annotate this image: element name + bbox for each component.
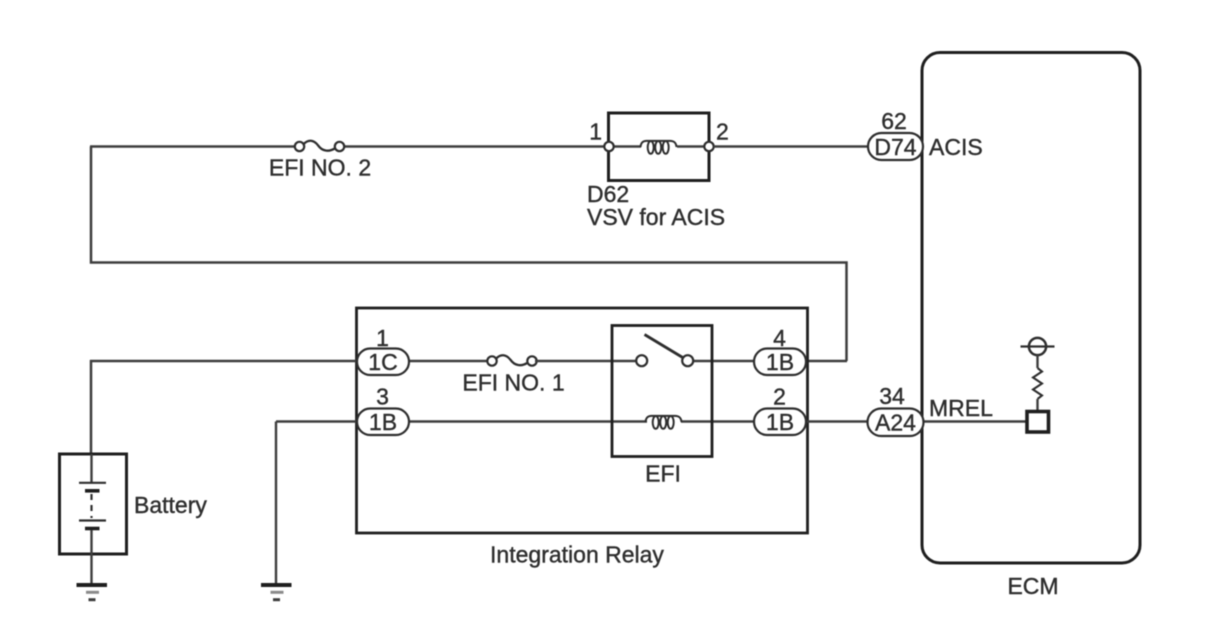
svg-text:1B: 1B <box>766 409 794 435</box>
wire row1: battery bus to relay pin 1C <box>90 360 358 362</box>
fuse EFI NO. 1 <box>487 355 536 365</box>
relay pin oval 1B (pin 4) <box>754 349 806 376</box>
svg-text:1: 1 <box>376 325 389 351</box>
svg-text:62: 62 <box>881 108 907 134</box>
relay pin oval 1B (pin 3) <box>357 409 409 436</box>
svg-text:EFI NO. 2: EFI NO. 2 <box>269 155 371 181</box>
wire VSV pin2 to ECM connector D74 <box>714 145 870 148</box>
switch blade <box>645 335 684 359</box>
svg-text:2: 2 <box>716 119 729 145</box>
wire battery to ground <box>90 530 92 584</box>
svg-text:ACIS: ACIS <box>929 134 983 160</box>
pin 2 circle of VSV <box>704 142 713 151</box>
pin 1 circle of VSV <box>604 142 613 151</box>
svg-text:A24: A24 <box>875 410 916 436</box>
wire relay pin3 branch down to ground <box>275 422 277 585</box>
relay inner box EFI <box>612 326 712 457</box>
connector A24 (pin 34, MREL) <box>868 409 924 437</box>
svg-text:ECM: ECM <box>1007 573 1058 599</box>
svg-text:Integration Relay: Integration Relay <box>490 542 664 568</box>
wire row2: ground branch to relay pin 3 <box>276 420 358 422</box>
battery dashed link <box>90 494 92 518</box>
svg-text:1: 1 <box>589 119 602 145</box>
svg-text:EFI NO. 1: EFI NO. 1 <box>462 370 564 396</box>
svg-text:1B: 1B <box>766 349 794 375</box>
wire row1: switch to pin 4 oval <box>692 360 756 362</box>
wire VSV internal right <box>677 145 709 147</box>
battery internal top wire <box>90 454 92 482</box>
ECM box <box>922 53 1140 564</box>
svg-text:3: 3 <box>376 384 389 410</box>
wire row1: fuse to switch contact <box>535 360 637 362</box>
svg-text:MREL: MREL <box>929 395 993 421</box>
wire row2: coil to pin 2 oval <box>681 420 756 422</box>
relay coil <box>646 416 682 429</box>
wire power circle to resistor <box>1036 355 1038 368</box>
svg-text:4: 4 <box>773 325 786 351</box>
coil of VSV (solenoid) <box>641 141 677 154</box>
svg-text:VSV for ACIS: VSV for ACIS <box>587 204 725 230</box>
battery cell 2 short plate <box>85 527 100 531</box>
wire top horizontal right segment (fuse to VSV pin 1) <box>343 145 609 148</box>
fuse EFI NO. 2 <box>295 141 344 151</box>
svg-text:EFI: EFI <box>645 461 681 487</box>
svg-text:1B: 1B <box>369 409 397 435</box>
relay pin oval 1B (pin 2) <box>754 409 806 436</box>
switch contact left circle <box>636 355 647 366</box>
wire battery bus vertical down to battery <box>90 360 93 455</box>
battery cell 2 long plate <box>79 519 106 521</box>
power symbol circle <box>1021 338 1055 355</box>
wire relay pin 4 to vertical riser <box>806 360 847 363</box>
Integration Relay box <box>357 308 808 533</box>
wire row2: pin 2 to ECM connector A24 <box>806 420 869 423</box>
relay pin oval 1C (pin 1) <box>357 349 409 376</box>
terminal square <box>1027 412 1049 433</box>
wire VSV internal left <box>609 145 641 147</box>
resistor zigzag inside ECM <box>1033 368 1042 399</box>
wire resistor to terminal square <box>1036 399 1038 412</box>
svg-text:Battery: Battery <box>134 492 207 518</box>
VSV for ACIS box D62 <box>609 113 710 181</box>
Battery box <box>60 454 127 554</box>
battery cell 1 long plate <box>79 482 106 484</box>
wire row2 inside ECM: A24 to terminal square <box>923 420 1027 423</box>
svg-text:D74: D74 <box>874 134 916 160</box>
svg-text:2: 2 <box>773 384 786 410</box>
ground (battery) <box>77 585 108 600</box>
ground (relay pin 3) <box>261 585 292 600</box>
wire row2 inside relay: pin 3 to coil <box>408 420 647 422</box>
wire left vertical (top row down to mid bus) <box>91 147 847 362</box>
connector D74 (pin 62, ACIS) <box>868 133 923 160</box>
battery cell 1 short plate <box>85 489 100 493</box>
switch contact right circle <box>682 355 693 366</box>
wire top horizontal left segment (battery feed to fuse EFI NO.2) <box>90 145 296 148</box>
svg-text:1C: 1C <box>368 349 397 375</box>
wire row1 inside relay: 1C to fuse EFI NO.1 <box>408 360 489 362</box>
svg-text:34: 34 <box>879 383 905 409</box>
